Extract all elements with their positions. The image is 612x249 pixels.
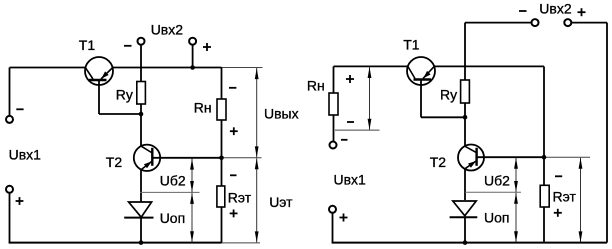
wire: diode to bottom rail (right) [464, 217, 466, 242]
wire: Rн branch from main wire [221, 68, 223, 100]
dimension across Rн (right) [368, 67, 372, 130]
wire: diode to bottom rail [140, 217, 142, 242]
svg-text:Uвх2: Uвх2 [539, 1, 572, 17]
reference tick for Uб2/Uоп [140, 191, 200, 193]
node: diode on bottom rail (right) [463, 240, 468, 245]
wire: bottom rail (right) [332, 242, 607, 244]
svg-text:Uэт: Uэт [269, 194, 293, 210]
dimension right outer [579, 158, 583, 243]
terminal Uвх2 minus (right) [532, 19, 539, 26]
node: Ry/base/T2 (right) [463, 115, 468, 120]
minus right of Rн bottom [347, 121, 354, 123]
resistor Rн (right) [329, 93, 338, 115]
wire: left rail horizontal from terminal column to T1 [10, 67, 86, 69]
node: base/Ry/T2 junction [139, 112, 144, 117]
wire: Rн bottom to node [221, 120, 223, 158]
reference line for Rн dimension [335, 129, 380, 131]
transistor T1 [85, 57, 113, 114]
minus above Rн [229, 87, 236, 89]
wire: T2 base to Rэт node [152, 157, 221, 159]
dimension Uоп [190, 193, 194, 242]
wire: Ry to node [464, 103, 466, 117]
plus below Rн [230, 130, 238, 132]
dimension Uоп (right) [514, 193, 518, 243]
resistor Rэт (right) [540, 185, 549, 207]
wire: T2 emitter to diode (right) [464, 169, 466, 200]
wire: plus terminal down (right) [332, 213, 334, 243]
reference tick right [465, 191, 521, 193]
diode VD (Uоп) [124, 202, 153, 218]
terminal Uвх2 plus [189, 38, 196, 45]
svg-text:Uб2: Uб2 [160, 172, 186, 188]
svg-text:Rу: Rу [116, 87, 133, 103]
wire: Ry bottom to node [140, 104, 142, 114]
wire: Rн branch (right) [333, 66, 335, 93]
svg-text:Uб2: Uб2 [484, 172, 510, 188]
node: Uвх2+ on main wire [190, 65, 195, 70]
extension line bottom [222, 242, 261, 244]
wire: T2 base to Rэт column (right) [477, 156, 544, 158]
svg-text:Uвых: Uвых [264, 105, 299, 121]
transistor T2 [134, 145, 160, 171]
svg-text:Rэт: Rэт [228, 190, 252, 206]
svg-text:Uвх2: Uвх2 [151, 21, 184, 37]
wire: Rэт to bottom rail [221, 207, 223, 243]
svg-text:T2: T2 [106, 154, 123, 170]
plus Uвх2 right [578, 11, 586, 13]
dimension Uб2 [190, 159, 194, 193]
minus above Rэт [230, 174, 237, 176]
wire: output column down to node [543, 66, 545, 157]
minus above Rэт (right) [555, 175, 562, 177]
svg-text:Uоп: Uоп [160, 210, 185, 226]
svg-text:Rн: Rн [307, 77, 325, 93]
wire: left rail vertical down to Uвх1 minus terminal [9, 68, 11, 116]
dimension Uб2 (right) [514, 158, 518, 192]
wire: Uвх2 plus down to main wire [192, 45, 194, 68]
wire: T1 base to node [99, 113, 141, 115]
wire: T2 emitter down to diode [140, 170, 142, 202]
dimension Uвых [255, 68, 259, 157]
svg-text:T2: T2 [430, 154, 447, 170]
terminal Uвх1 minus [6, 116, 13, 123]
wire: bottom rail [9, 242, 222, 244]
plus right of Rн top [346, 78, 354, 80]
wire: T1 to output column [434, 65, 544, 67]
wire: node down to T2 collector [140, 114, 142, 146]
wire: node to Rэт [221, 158, 223, 186]
wire: right edge down [606, 23, 608, 243]
plus below Rэт [230, 212, 238, 214]
wire: Uвх2 minus terminal down to Ry [140, 45, 142, 82]
terminal Uвх1 plus [6, 186, 13, 193]
resistor Ry [137, 82, 146, 105]
node: T2 base / Rн / Rэт [219, 156, 224, 161]
svg-text:T1: T1 [79, 37, 96, 53]
wire: Rн to minus terminal (right) [333, 115, 335, 142]
wire: main top wire T1 to Rн branch [113, 67, 222, 69]
diode VD (right) [450, 201, 478, 217]
terminal Uвх1 plus (right) [329, 206, 336, 213]
terminal Uвх2 plus (right) [564, 19, 571, 26]
extension line right middle [544, 156, 590, 158]
transistor T2 (right) [458, 145, 484, 171]
svg-text:Rу: Rу [440, 86, 457, 102]
svg-text:Uоп: Uоп [484, 209, 509, 225]
wire: T1 base to node (right) [421, 116, 465, 118]
resistor Rэт [217, 186, 225, 207]
wire: node to Rэт (right) [543, 157, 545, 185]
transistor T1 (right) [407, 57, 435, 117]
resistor Ry (right) [461, 80, 470, 103]
wire: Uвх2- left to Ry column [465, 22, 532, 24]
minus Uвх2 right [519, 10, 527, 12]
wire: Uвх2+ right to edge [571, 22, 607, 24]
terminal Uвх1 minus (right) [330, 142, 337, 149]
extension line middle [222, 157, 262, 159]
wire: down to Ry (crosses main wire) [464, 23, 466, 80]
svg-text:Rэт: Rэт [553, 188, 577, 204]
terminal Uвх2 minus [138, 38, 145, 45]
wire: from plus terminal down to bottom rail [9, 193, 11, 243]
svg-text:Uвх1: Uвх1 [9, 146, 42, 162]
plus below Rэт (right) [554, 212, 562, 214]
node: base/Rэт (right) [542, 155, 547, 160]
wire: node to T2 collector (right) [464, 117, 466, 146]
node: diode on bottom rail [139, 240, 144, 245]
svg-text:Uвх1: Uвх1 [334, 172, 367, 188]
svg-text:T1: T1 [403, 37, 420, 53]
svg-text:Rн: Rн [194, 99, 212, 115]
extension line top [222, 67, 263, 69]
resistor Rн [217, 99, 226, 120]
wire: Rн column to T1 (right) [334, 65, 408, 67]
wire: Rэт to bottom rail (right) [543, 207, 545, 243]
dimension Uэт [255, 158, 259, 242]
